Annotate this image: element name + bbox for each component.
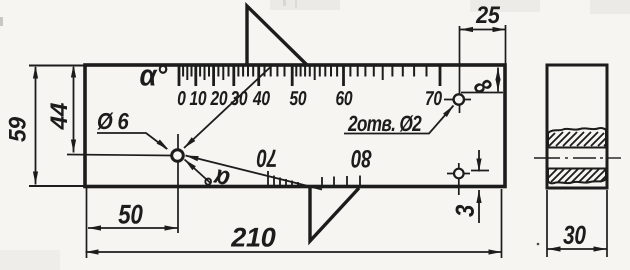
scale numeral 10 <box>190 91 207 105</box>
scale numeral 50 <box>290 91 307 105</box>
side view break band 1 <box>548 128 606 147</box>
label alpha-deg at incline (rotated) <box>204 167 231 190</box>
hole F6 crosshair <box>67 155 171 156</box>
label 2-holes diameter-2 <box>348 115 422 131</box>
dim 25 line <box>460 29 506 31</box>
protractor tick marks <box>179 66 440 86</box>
dim text 59 (rotated) <box>9 117 26 142</box>
hole F2 (bottom) crosshair <box>458 163 460 195</box>
dim text 3 (rotated) <box>456 205 475 217</box>
dim 3 lower arrow <box>478 190 480 223</box>
bottom triangle pointer <box>310 188 359 241</box>
dim text 8 (rotated) <box>473 77 494 96</box>
lower scale fan ticks <box>268 171 360 187</box>
plate outline (main view) <box>85 65 505 187</box>
dim 3 boundary stub <box>471 170 489 172</box>
dim 3 upper arrow <box>478 150 480 172</box>
hole F2 (top) <box>454 94 464 104</box>
scale numeral 0 <box>178 91 186 105</box>
label diameter-6 <box>97 113 129 130</box>
hole F2 (top) crosshair <box>459 26 461 113</box>
dim 210 right extension <box>501 189 503 258</box>
dim 210 line <box>86 251 502 253</box>
label alpha-deg scale title <box>140 65 167 86</box>
dim 50 left extension <box>86 187 88 258</box>
side view outline <box>547 65 607 188</box>
F6 leader <box>97 133 167 149</box>
dim text 30 <box>563 226 586 245</box>
2otv F2 leader <box>344 106 454 134</box>
scale numeral 70 <box>426 91 442 105</box>
dim 50 line <box>88 227 178 229</box>
arrowheads <box>33 27 607 255</box>
dim 30 line <box>548 248 607 250</box>
lower scale numeral 70 (upside down) <box>257 150 276 168</box>
scale numeral 20 <box>210 91 227 105</box>
dim text 50 <box>118 205 142 224</box>
dim 25 right extension <box>505 25 507 64</box>
dim text 210 <box>231 228 276 247</box>
side view break band 2 <box>548 169 606 184</box>
scale numeral 40 <box>253 91 270 105</box>
side view centerline <box>534 157 621 159</box>
alpha incline line with arrow to hole <box>186 156 323 190</box>
dim 59 extension bottom <box>29 185 87 187</box>
dim 44 line <box>73 67 75 110</box>
alpha label leader line <box>185 160 212 184</box>
dim 30 extensions <box>546 190 548 257</box>
hole F6 <box>172 150 184 162</box>
dim 59 line <box>35 67 37 123</box>
scale numeral 60 <box>336 91 352 105</box>
dim 8 arrow line <box>497 68 499 92</box>
hole F2 (bottom) <box>454 169 464 179</box>
dim text 44 (rotated) <box>51 103 68 130</box>
scale numeral 30 <box>231 91 248 105</box>
dim text 25 <box>476 6 500 23</box>
lower scale numeral 80 (upside down) <box>351 150 371 168</box>
dim 8 lower boundary <box>461 92 503 94</box>
dim 59 extension top <box>29 65 85 67</box>
top triangle pointer <box>247 6 307 65</box>
45-degree index line with arrow to hole <box>184 67 271 149</box>
